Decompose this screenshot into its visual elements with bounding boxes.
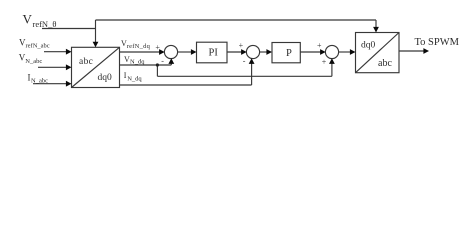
svg-text:N_dq: N_dq <box>130 59 145 66</box>
svg-text:N_abc: N_abc <box>25 58 42 65</box>
svg-text:+: + <box>155 43 160 52</box>
svg-text:refN_abc: refN_abc <box>26 43 50 50</box>
svg-text:dq0: dq0 <box>98 73 113 83</box>
svg-text:+: + <box>239 41 244 50</box>
svg-text:N_dq: N_dq <box>127 76 142 83</box>
svg-text:PI: PI <box>209 48 219 59</box>
svg-text:refN_θ: refN_θ <box>33 19 57 29</box>
svg-text:-: - <box>243 57 246 66</box>
svg-text:To SPWM: To SPWM <box>415 37 460 48</box>
svg-text:+: + <box>322 58 327 67</box>
svg-text:abc: abc <box>79 57 93 67</box>
svg-text:N_abc: N_abc <box>31 78 48 85</box>
svg-text:+: + <box>317 41 322 50</box>
svg-text:P: P <box>286 48 292 59</box>
svg-text:abc: abc <box>378 58 392 69</box>
svg-text:refN_dq: refN_dq <box>127 43 151 50</box>
svg-text:dq0: dq0 <box>361 41 376 51</box>
svg-text:-: - <box>161 57 164 66</box>
svg-text:V: V <box>23 11 33 26</box>
